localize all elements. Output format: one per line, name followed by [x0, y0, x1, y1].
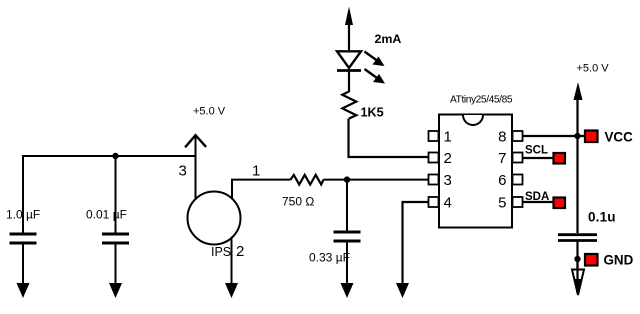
wire pin5 to SDA	[523, 201, 555, 203]
wire R2 to pin2	[349, 119, 429, 158]
svg-text:8: 8	[498, 129, 506, 146]
svg-text:1: 1	[444, 129, 452, 146]
node junction C2	[112, 153, 118, 159]
ground arrow C2	[109, 283, 122, 298]
LED D1	[337, 51, 385, 83]
power +5.0 V (right)	[574, 63, 610, 234]
svg-text:7: 7	[498, 150, 506, 167]
wire R1 to pin3	[324, 179, 429, 181]
svg-text:IPS: IPS	[211, 245, 231, 259]
capacitor C3 0.33 µF	[309, 180, 361, 285]
svg-text:6: 6	[498, 172, 506, 189]
svg-text:3: 3	[179, 163, 187, 180]
svg-text:1.0 µF: 1.0 µF	[6, 207, 40, 221]
IC U1 ATtiny25/45/85	[429, 95, 523, 228]
ground arrow C3	[341, 283, 354, 298]
power +5.0 V (middle)	[185, 105, 226, 198]
svg-text:SDA: SDA	[525, 191, 549, 203]
svg-text:4: 4	[444, 195, 452, 212]
power arrow LED top	[345, 7, 353, 52]
svg-text:2mA: 2mA	[375, 32, 402, 46]
svg-text:750 Ω: 750 Ω	[282, 195, 314, 209]
emission arrow 2	[365, 69, 378, 78]
ground arrow (open)	[572, 270, 584, 296]
wire IPS pin1	[232, 180, 291, 199]
node junction GND	[574, 256, 580, 262]
svg-text:2: 2	[236, 243, 244, 260]
ground arrow IPS	[225, 283, 238, 298]
ground arrow pin4	[396, 283, 409, 298]
svg-text:2: 2	[444, 150, 452, 167]
terminal SDA	[554, 198, 566, 209]
pin 7	[513, 153, 523, 163]
node junction VCC	[574, 133, 580, 139]
svg-text:GND: GND	[604, 252, 634, 267]
pin 3	[429, 175, 439, 185]
svg-text:+5.0 V: +5.0 V	[193, 105, 226, 117]
sensor IPS	[188, 192, 245, 261]
capacitor C2 0.01 µF	[86, 155, 129, 285]
pin 6	[513, 175, 523, 185]
resistor R1 750 Ω	[282, 175, 324, 209]
wire pin4 to ground	[403, 202, 429, 285]
pin 1	[429, 131, 439, 141]
svg-text:0.01 µF: 0.01 µF	[86, 207, 127, 221]
wire left rail horizontal	[22, 155, 196, 157]
pin 2	[429, 153, 439, 163]
terminal SCL	[554, 153, 566, 164]
capacitor C4 0.1u	[558, 210, 616, 294]
svg-text:ATtiny25/45/85: ATtiny25/45/85	[450, 95, 513, 106]
wire pin8 to VCC	[523, 135, 585, 137]
wire LED to R2	[348, 69, 350, 92]
svg-text:+5.0 V: +5.0 V	[577, 63, 610, 75]
capacitor C1 1.0 µF	[6, 155, 40, 285]
svg-text:1: 1	[252, 163, 260, 180]
resistor R2 1K5	[342, 92, 383, 120]
pin 8	[513, 131, 523, 141]
svg-text:VCC: VCC	[605, 129, 634, 144]
svg-text:SCL: SCL	[525, 145, 548, 157]
svg-text:0.1u: 0.1u	[588, 210, 616, 225]
ground arrow C1	[17, 283, 30, 298]
wire pin7 to SCL	[523, 157, 555, 159]
svg-text:1K5: 1K5	[361, 106, 384, 120]
svg-text:3: 3	[444, 172, 452, 189]
svg-text:0.33 µF: 0.33 µF	[309, 251, 350, 265]
terminal GND	[585, 254, 598, 266]
pin 5	[513, 197, 523, 207]
terminal VCC	[585, 131, 598, 143]
node junction C3	[344, 176, 350, 182]
svg-text:5: 5	[498, 195, 506, 212]
wire IPS pin2	[231, 238, 233, 285]
pin 4	[429, 197, 439, 207]
emission arrow 1	[365, 52, 378, 61]
